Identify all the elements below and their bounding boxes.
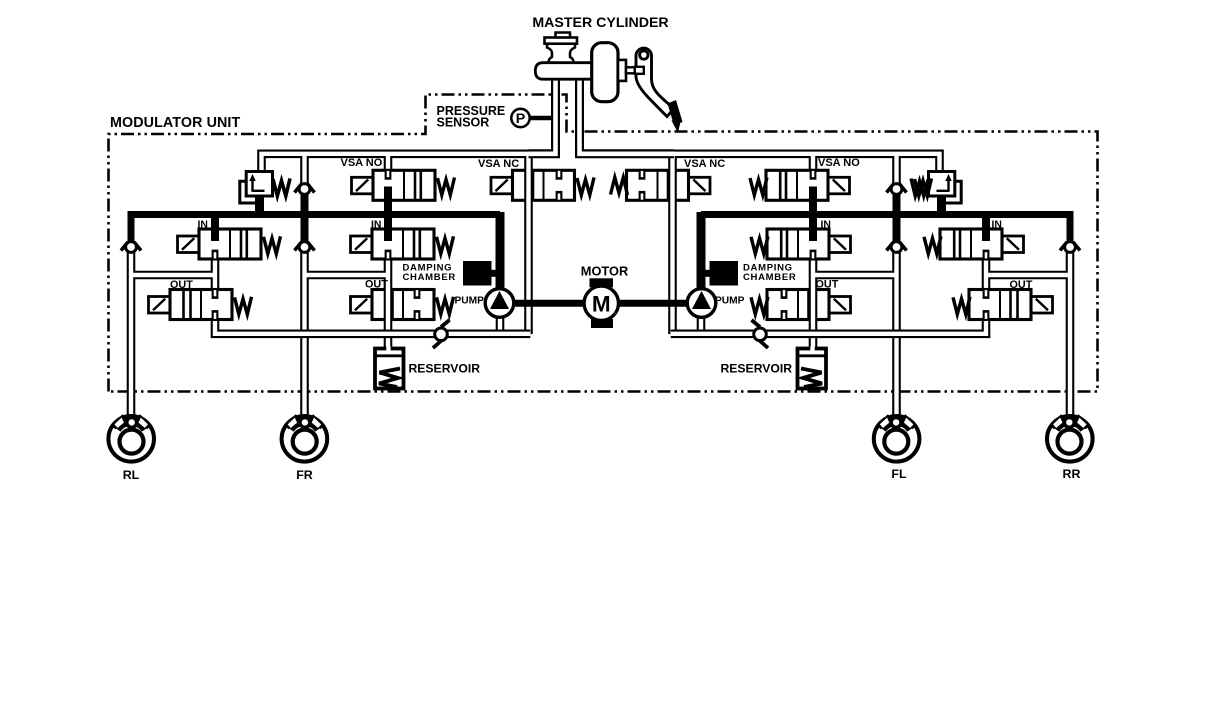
reservoir cap <box>556 33 571 39</box>
spring of OUT valve FL <box>751 297 768 315</box>
pushrod <box>626 67 644 73</box>
master cylinder drawing <box>535 33 682 134</box>
spring of OUT valve RL <box>235 297 252 315</box>
spring of relief valve left <box>273 179 290 197</box>
spring of OUT valve FR <box>437 297 454 315</box>
solenoid valve OUT (FR circuit) <box>351 288 435 322</box>
spring of VSA NC right <box>611 178 628 196</box>
svg-text:CHAMBER: CHAMBER <box>403 272 456 283</box>
svg-text:IN: IN <box>198 220 208 231</box>
modulator unit boundary (dash-dot box) <box>109 95 1098 392</box>
svg-text:FL: FL <box>891 467 907 481</box>
check valve: manifold to bus <box>295 184 315 195</box>
spring of IN valve FL <box>751 236 768 254</box>
wire: master cylinder right circuit pipe to right manifold <box>580 79 675 154</box>
svg-text:PUMP: PUMP <box>455 296 485 307</box>
wire cores (white) <box>131 154 532 417</box>
solenoid valve IN (RL circuit) <box>178 212 262 259</box>
spring of OUT valve RR <box>953 297 970 315</box>
relief valve <box>246 172 290 197</box>
spring of VSA NO left <box>438 178 455 196</box>
svg-text:OUT: OUT <box>816 279 839 291</box>
svg-text:RESERVOIR: RESERVOIR <box>409 362 481 376</box>
svg-text:P: P <box>516 111 525 127</box>
wheel RL <box>108 414 154 461</box>
svg-text:PUMP: PUMP <box>715 296 745 307</box>
svg-text:VSA NC: VSA NC <box>684 158 725 170</box>
brake pedal <box>635 48 683 133</box>
solenoid valve VSA NO (left) <box>352 170 436 216</box>
wire: master cylinder left circuit pipe with jog to left manifold <box>529 79 556 154</box>
wheel FR <box>282 414 328 461</box>
pump (left) <box>485 289 514 318</box>
svg-text:RL: RL <box>123 468 140 482</box>
damping chamber stub <box>490 270 498 277</box>
spring of IN valve FR <box>437 236 454 254</box>
wires: manifold, wheel lines, taps, VSA NC line, suction (black walls) <box>131 154 532 417</box>
svg-text:MODULATOR UNIT: MODULATOR UNIT <box>110 115 240 131</box>
reservoir (left) <box>374 347 404 389</box>
reservoir neck <box>547 44 575 63</box>
thick bar: relief valve to bus <box>255 194 264 216</box>
right half: mirrored copy of left-half geometry <box>627 154 1093 462</box>
wire: pump/reservoir suction line (drawn over wheel line) <box>215 319 530 334</box>
svg-text:IN: IN <box>992 220 1002 231</box>
check valve: bus to FR wheel line <box>295 242 315 253</box>
pressure sensor P <box>511 109 553 127</box>
thick shaft: pump - motor - pump <box>513 300 689 307</box>
thick bar: manifold check valve to bus <box>301 193 309 216</box>
svg-text:IN: IN <box>371 220 381 231</box>
solenoid valve IN (FR circuit) <box>351 212 435 259</box>
motor M1 <box>584 278 618 328</box>
svg-text:FR: FR <box>296 468 313 482</box>
svg-text:RR: RR <box>1063 467 1081 481</box>
spring of IN valve RR <box>924 236 941 254</box>
spring of VSA NC left <box>577 178 594 196</box>
brake booster <box>592 43 618 102</box>
solenoid valve VSA NC (left) <box>491 169 575 203</box>
svg-text:SENSOR: SENSOR <box>437 116 490 130</box>
check valve: suction line (rotated) <box>433 320 450 348</box>
svg-text:VSA NC: VSA NC <box>478 158 519 170</box>
check valve: left end of bus (RL) <box>121 242 141 253</box>
spring of relief valve right <box>915 179 932 197</box>
thick bar: bus down to wheel-line check valve <box>301 214 309 241</box>
svg-text:M: M <box>592 292 611 317</box>
springs (left half, W phase) <box>235 178 595 315</box>
damping chamber (left, black block) <box>463 261 492 286</box>
spring of VSA NO right <box>750 178 767 196</box>
svg-text:OUT: OUT <box>170 279 193 291</box>
solenoid valve OUT (RL circuit) <box>149 290 233 320</box>
thick bar: bus down to pump inlet <box>496 212 505 290</box>
relief valve bypass loop <box>240 181 258 203</box>
svg-text:RESERVOIR: RESERVOIR <box>721 362 793 376</box>
main pressure bus (thick) <box>131 215 500 242</box>
spring of IN valve RL <box>264 236 281 254</box>
svg-text:VSA NO: VSA NO <box>341 157 383 169</box>
svg-text:CHAMBER: CHAMBER <box>743 272 796 283</box>
cylinder body <box>535 63 592 79</box>
svg-text:MOTOR: MOTOR <box>581 264 628 279</box>
svg-text:MASTER CYLINDER: MASTER CYLINDER <box>532 15 668 31</box>
svg-text:OUT: OUT <box>365 279 388 291</box>
svg-text:VSA NO: VSA NO <box>818 157 860 169</box>
springs (right half, M phase) <box>611 178 971 315</box>
svg-text:OUT: OUT <box>1010 279 1033 291</box>
svg-text:IN: IN <box>821 220 831 231</box>
